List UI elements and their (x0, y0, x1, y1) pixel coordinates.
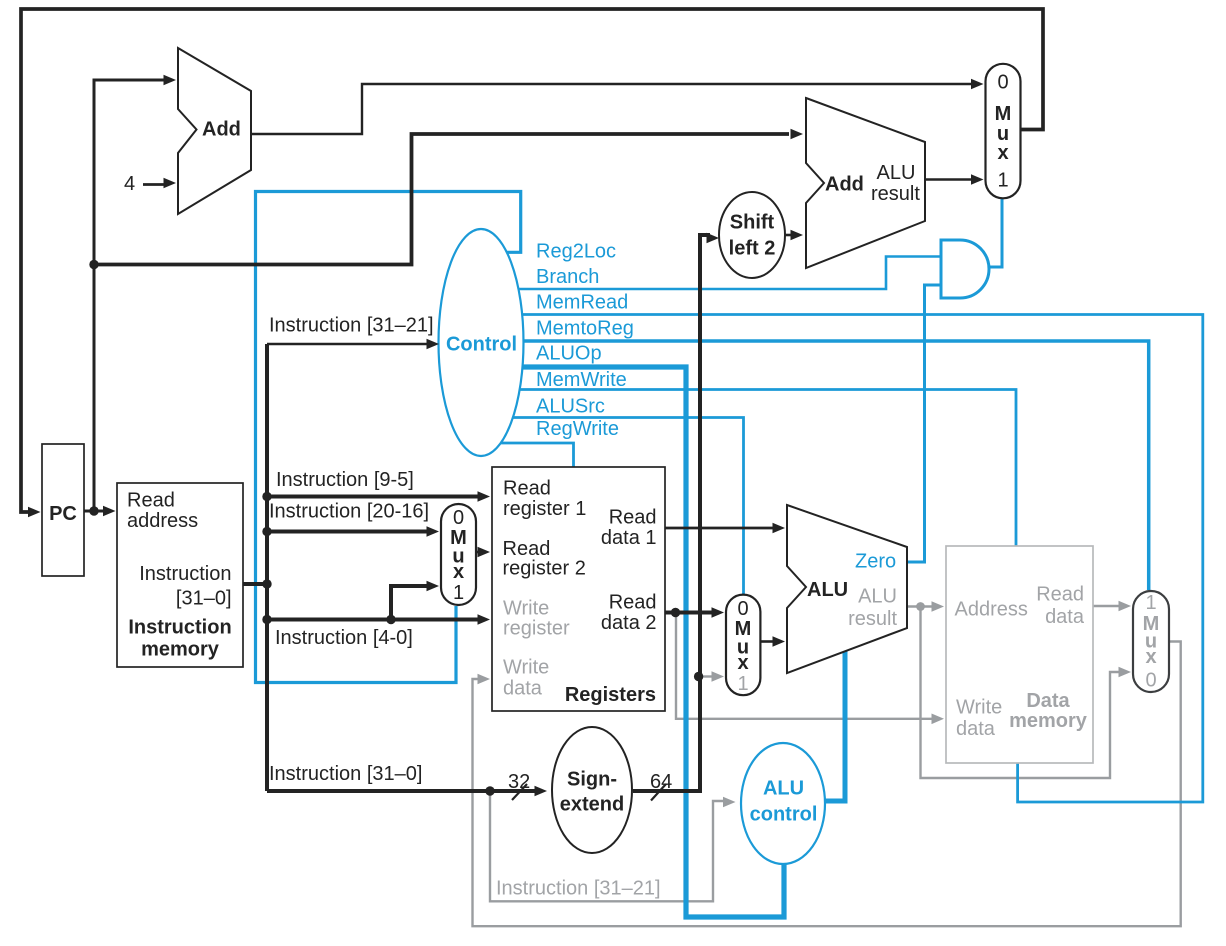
svg-text:extend: extend (560, 794, 624, 816)
slash 32-bit bus width mark (512, 784, 527, 800)
wire: Instruction [20-16] to register mux input 0 (267, 530, 431, 534)
arrowhead gray into MemtoReg mux input 1 (1119, 601, 1132, 612)
arrowhead gray into Registers Write data (478, 674, 491, 685)
svg-text:memory: memory (141, 638, 220, 660)
svg-text:Instruction: Instruction (128, 616, 231, 638)
svg-text:1: 1 (737, 673, 748, 695)
ALU main (787, 505, 907, 673)
wire: Instruction [31-21] to Control (267, 343, 428, 346)
registers box (492, 467, 665, 711)
arrowhead into ALUSrc mux input 0 (712, 607, 725, 618)
mux PC source (986, 64, 1021, 199)
wire: AND gate output to PC-source mux select (989, 199, 1002, 267)
mux MemtoReg (1133, 591, 1169, 692)
mux register 2 (Reg2Loc) (441, 504, 476, 605)
svg-text:Read: Read (127, 490, 175, 512)
svg-text:Instruction [31–0]: Instruction [31–0] (269, 763, 422, 785)
arrowhead gray into ALUSrc mux input 1 (712, 671, 725, 682)
arrowhead into ALU top input (773, 523, 786, 534)
node: instruction bus tap [9-5] (262, 492, 271, 501)
node: instruction bus tap [20-16] (262, 527, 271, 536)
arrowhead into branch Add top input (791, 129, 804, 140)
svg-text:Instruction [9-5]: Instruction [9-5] (276, 469, 414, 491)
arrowhead into Shift left 2 (707, 233, 720, 244)
node: ALU result gray junction (916, 602, 925, 611)
node: PC to branch-add junction (89, 260, 98, 269)
arrowhead constant 4 into Add (164, 178, 177, 189)
wire: Instruction [4-0] to Write register (267, 618, 479, 622)
svg-text:M: M (995, 103, 1012, 125)
wire: register mux output to Read register 2 (476, 551, 480, 554)
wire: PC+4 Add output to PC-source mux input 0 (251, 84, 977, 134)
sign-extend oval (552, 727, 632, 853)
arrowhead gray into Data memory Write data (932, 714, 945, 725)
svg-text:Read: Read (609, 591, 657, 613)
wire: MemtoReg mux output write-back to Registers Write data (473, 642, 1181, 927)
node: instruction bus source junction (262, 579, 271, 588)
arrowhead gray into MemtoReg mux input 0 (1119, 667, 1132, 678)
arrowhead into Write register (478, 614, 491, 625)
shift left 2 oval (719, 192, 785, 278)
wire: sign-extend tap gray arrow into ALUSrc mux input 1 (700, 675, 716, 677)
svg-text:Sign-: Sign- (567, 769, 617, 791)
wire: Branch from Control to AND gate top input (482, 257, 940, 290)
wire: RegWrite from Control to Registers top (482, 443, 574, 468)
arrowhead gray into Address (932, 601, 945, 612)
wire: PC value right and up to branch Add input (94, 134, 789, 265)
adder Add (PC+4) (178, 48, 251, 214)
AND gate (941, 240, 989, 298)
svg-text:x: x (1145, 646, 1156, 668)
svg-text:Write: Write (503, 657, 549, 679)
svg-text:RegWrite: RegWrite (536, 418, 619, 440)
svg-text:memory: memory (1009, 710, 1088, 732)
wire: MemtoReg from Control to MemtoReg mux select (482, 341, 1149, 590)
arrowhead into Sign-extend (535, 786, 548, 797)
wire: Sign-extend output up to Shift left 2 (633, 235, 710, 791)
svg-text:control: control (750, 804, 818, 826)
wire: Read data 2 to ALUSrc mux input 0 (665, 611, 715, 615)
svg-text:Instruction: Instruction (139, 563, 231, 585)
arrowhead into ALU bottom input (773, 636, 786, 647)
arrowhead gray into ALU control (723, 797, 736, 808)
svg-text:Instruction [4-0]: Instruction [4-0] (275, 627, 413, 649)
svg-text:result: result (871, 183, 920, 205)
svg-text:0: 0 (453, 507, 464, 529)
svg-text:Registers: Registers (565, 684, 656, 706)
svg-text:0: 0 (1145, 670, 1156, 692)
svg-text:data: data (1045, 606, 1085, 628)
svg-text:Instruction [31–21]: Instruction [31–21] (269, 315, 434, 337)
arrowhead into register mux input 0 (427, 526, 440, 537)
svg-text:MemWrite: MemWrite (536, 369, 627, 391)
BLACK WIRES (21, 9, 1043, 791)
svg-text:left 2: left 2 (729, 238, 776, 260)
BLUE WIRES (256, 192, 1203, 918)
mux ALUSrc (726, 595, 760, 696)
svg-text:ALUSrc: ALUSrc (536, 396, 605, 418)
svg-text:Write: Write (956, 697, 1002, 719)
svg-text:ALU: ALU (807, 579, 848, 601)
wire: ALUSrc from Control to ALUSrc mux select (482, 418, 744, 597)
svg-text:x: x (737, 652, 748, 674)
svg-text:Branch: Branch (536, 266, 599, 288)
wire: Instruction [31-0] to Sign-extend (267, 789, 536, 793)
GRAY WIRES (473, 606, 1181, 926)
wire: Instruction [9-5] to Read register 1 (267, 495, 479, 499)
wire: ALU result to Address and around to MemtoReg mux input 0 (907, 605, 933, 607)
svg-text:1: 1 (453, 582, 464, 604)
wire: branch Add ALU result to PC-source mux input 1 (925, 178, 975, 180)
wire: Shift left 2 output to branch Add (785, 234, 794, 237)
wire: Reg2Loc from Control around left and bottom to register mux select (256, 192, 521, 683)
data memory box (946, 546, 1093, 763)
svg-text:Instruction [31–21]: Instruction [31–21] (496, 878, 661, 900)
arrowhead into PC mux input 0 (971, 79, 984, 90)
wire: Data memory Read data to MemtoReg mux input 1 (1093, 605, 1124, 607)
svg-text:Zero: Zero (855, 551, 896, 573)
arrowhead into branch Add bottom input (791, 230, 804, 241)
svg-text:Add: Add (202, 119, 241, 141)
wire: Read data 1 to ALU input (665, 527, 776, 530)
wire: constant 4 into first Add (143, 183, 166, 186)
svg-text:Write: Write (503, 597, 549, 619)
wire: ALUSrc mux output to ALU input (761, 640, 777, 643)
ARROWS (28, 75, 984, 797)
node: instruction bus tap [4-0] (262, 615, 271, 624)
svg-text:Add: Add (825, 174, 864, 196)
wire: ALUOp from Control down and around to ALU control (482, 367, 784, 917)
svg-text:Reg2Loc: Reg2Loc (536, 241, 616, 263)
arrowhead into register mux input 1 (427, 581, 440, 592)
svg-text:data 2: data 2 (601, 612, 657, 634)
svg-text:result: result (848, 608, 897, 630)
svg-text:MemtoReg: MemtoReg (536, 318, 634, 340)
svg-text:0: 0 (997, 72, 1008, 94)
svg-text:register 1: register 1 (503, 498, 586, 520)
svg-text:x: x (997, 142, 1008, 164)
svg-text:ALU: ALU (858, 586, 897, 608)
arrowhead into Read register 2 (478, 547, 491, 558)
wire: instruction bus vertical (265, 344, 269, 791)
wire: MemWrite from Control to Data memory top (482, 390, 1016, 548)
svg-text:address: address (127, 510, 198, 532)
instruction memory box (117, 483, 243, 667)
svg-text:Read: Read (1036, 583, 1084, 605)
svg-text:PC: PC (49, 503, 77, 525)
svg-text:data: data (956, 718, 996, 740)
control unit oval (439, 229, 524, 456)
ALU control oval (741, 743, 825, 864)
wire: MemRead from Control around right to Data memory bottom (482, 315, 1203, 803)
arrowhead into PC (28, 507, 41, 518)
arrowhead into PC mux input 1 (971, 174, 984, 185)
wire: Instruction [31-21] gray tap to ALU control (490, 791, 729, 901)
svg-text:Read: Read (503, 478, 551, 500)
svg-text:[31–0]: [31–0] (176, 587, 232, 609)
svg-text:Address: Address (955, 599, 1028, 621)
svg-text:data: data (503, 678, 543, 700)
svg-text:1: 1 (1145, 592, 1156, 614)
wire: PC output to instruction memory Read address (84, 510, 109, 513)
node: PC output junction (89, 506, 98, 515)
wire: Zero from ALU up to AND gate bottom input (906, 285, 940, 562)
wire: instruction memory output to bus (243, 582, 267, 586)
node: Read data 2 tap (671, 608, 680, 617)
wire: PC value up to first Add input (94, 80, 167, 511)
svg-text:0: 0 (737, 598, 748, 620)
node: sign-extend tap to ALUSrc mux (694, 672, 703, 681)
svg-text:Instruction [20-16]: Instruction [20-16] (269, 501, 429, 523)
svg-text:Control: Control (446, 334, 517, 356)
wire: Read data 2 tap down to Data memory Write data (676, 614, 935, 719)
wire: PC update loop from PC-source mux output around top-left into PC (21, 9, 1043, 512)
arrowhead into Read address (103, 506, 116, 517)
svg-text:ALU: ALU (877, 162, 916, 184)
svg-text:32: 32 (508, 771, 530, 793)
svg-text:x: x (453, 561, 464, 583)
slash 64-bit bus width mark (651, 784, 666, 801)
svg-text:4: 4 (124, 173, 135, 195)
arrowhead into Control (427, 339, 440, 350)
svg-text:ALU: ALU (763, 778, 804, 800)
svg-text:ALUOp: ALUOp (536, 343, 602, 365)
svg-text:MemRead: MemRead (536, 292, 628, 314)
svg-text:64: 64 (650, 771, 672, 793)
arrowhead into Read register 1 (478, 491, 491, 502)
adder Add (branch target) (806, 98, 925, 268)
svg-text:1: 1 (997, 170, 1008, 192)
svg-text:data 1: data 1 (601, 527, 657, 549)
svg-text:register 2: register 2 (503, 558, 586, 580)
wire: ALU control output to ALU control input pin (824, 649, 845, 801)
register PC (42, 444, 84, 576)
svg-text:Shift: Shift (730, 212, 775, 234)
svg-text:Data: Data (1026, 690, 1070, 712)
node: instruction [31-0] tap to ALU control (485, 786, 494, 795)
arrowhead into Add top input (164, 75, 177, 86)
svg-text:register: register (503, 618, 570, 640)
wire: Instruction [4-0] up to register mux input 1 (391, 586, 429, 620)
svg-text:Read: Read (609, 507, 657, 529)
node: [4-0] up-branch junction (386, 615, 395, 624)
